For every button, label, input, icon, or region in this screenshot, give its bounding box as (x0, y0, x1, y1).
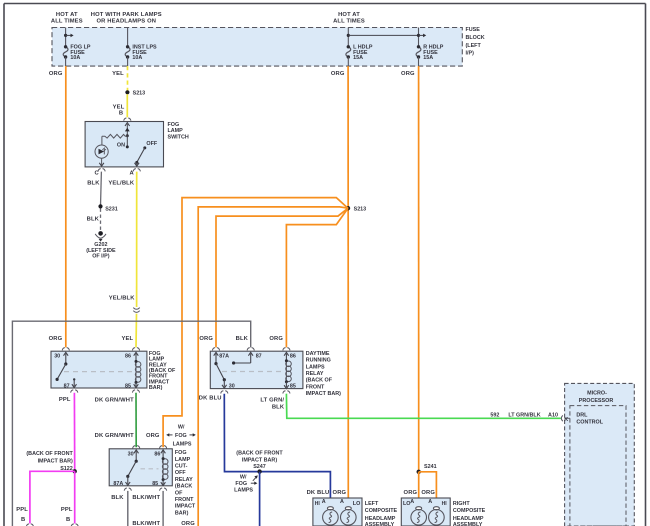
wire label PPL (left) (16, 507, 28, 513)
svg-text:OR HEADLAMPS ON: OR HEADLAMPS ON (97, 19, 157, 25)
label OFF (146, 141, 157, 147)
wire DK GRN/WHT from fog relay 85 to cut-off relay 30 (135, 393, 137, 447)
DRL relay pin 87 lead (232, 352, 253, 364)
wire label BLK/WHT (132, 495, 160, 501)
fog relay pin 86 label (125, 354, 131, 360)
cut-off relay switch contact 30 to 87A (126, 450, 139, 486)
wire label PPL (59, 397, 71, 403)
connector at DRL relay pin 85 (283, 391, 290, 394)
svg-text:FRONT: FRONT (175, 497, 194, 503)
svg-text:86: 86 (125, 354, 131, 360)
left headlamp pin labels HI A A LO (315, 499, 361, 507)
svg-text:C: C (94, 171, 99, 177)
svg-text:15A: 15A (423, 55, 433, 61)
wire label ORG (left headlamp) (333, 490, 347, 496)
svg-text:RELAY: RELAY (175, 477, 193, 483)
arrow right (w/ fog lamps at S247) (251, 482, 258, 485)
connector at switch pin B (124, 118, 131, 121)
connector at DRL relay pin 87A (212, 348, 219, 351)
wire label DK BLU (199, 396, 222, 402)
svg-text:A10: A10 (548, 413, 558, 419)
svg-text:BAR): BAR) (175, 510, 189, 516)
connector at DRL relay pin 86 (283, 348, 290, 351)
svg-text:W/: W/ (178, 425, 185, 431)
connector at switch pin A (133, 169, 140, 172)
label FOG LAMP CUT-OFF RELAY (BACK OF FRONT IMPACT BAR) (175, 450, 196, 516)
fog relay switch contact 30 to 87 (56, 352, 69, 381)
svg-text:ORG: ORG (331, 71, 345, 77)
switch arm OFF position (135, 146, 146, 164)
fog relay pin 87 arrow (72, 378, 77, 387)
arrow right (w/ fog lamps) (190, 433, 196, 436)
fuse FOG LP FUSE 10A (63, 28, 73, 67)
connector at cut-off relay pin 86 (160, 446, 167, 449)
wire label BLK at DRL 87 (236, 336, 249, 342)
label DRL CONTROL (576, 413, 603, 426)
wire ORG branch from S213 to fog lamp cut-off relay pin 86 (163, 198, 348, 448)
fuse block (left I/P) dashed box (52, 28, 462, 67)
label R HDLP FUSE 15A (423, 44, 443, 60)
svg-text:COMPOSITE: COMPOSITE (453, 508, 486, 514)
wire ORG branch from S213 to DRL relay pin 87A (216, 208, 348, 347)
cut-off relay pin 86 label (154, 451, 160, 457)
svg-text:FOG: FOG (235, 481, 247, 487)
svg-text:592: 592 (490, 413, 499, 419)
svg-text:YEL/BLK: YEL/BLK (108, 180, 135, 186)
svg-text:LAMP: LAMP (175, 457, 191, 463)
splice S231 (98, 204, 102, 208)
svg-text:RUNNING: RUNNING (306, 358, 331, 364)
svg-text:SWITCH: SWITCH (168, 134, 189, 140)
svg-text:BLOCK: BLOCK (466, 35, 485, 41)
svg-text:S213: S213 (133, 91, 146, 97)
fog relay pin 30 label (54, 354, 60, 360)
label G202 (LEFT SIDE OF I/P) (86, 242, 116, 260)
svg-text:15A: 15A (353, 55, 363, 61)
svg-text:I/P): I/P) (466, 51, 475, 57)
wire label YEL/BLK (108, 180, 135, 186)
label FUSE BLOCK (LEFT I/P) (466, 27, 485, 57)
svg-text:LT GRN/BLK: LT GRN/BLK (508, 413, 540, 419)
svg-text:A: A (410, 499, 414, 505)
connector at left fog lamp (26, 524, 33, 526)
wire label ORG (l hdlp) (331, 71, 345, 77)
DRL relay pin 30 label (229, 384, 235, 390)
svg-text:LT GRN/: LT GRN/ (260, 398, 284, 404)
svg-text:LAMPS: LAMPS (306, 364, 325, 370)
svg-text:PPL: PPL (61, 507, 73, 513)
wire LT GRN/BLK from DRL 85 to microprocessor (286, 394, 560, 419)
label S213 (354, 207, 367, 213)
wire ORG branch from S213 to DRL relay pin 86 (286, 208, 348, 347)
svg-text:S213: S213 (354, 207, 367, 213)
cut-off relay coil pins 86-85 (161, 450, 168, 486)
svg-text:BLK: BLK (236, 336, 249, 342)
wire ORG from R HDLP fuse down to S241 (418, 66, 420, 470)
wire label ORG (right headlamp LO) (404, 490, 418, 496)
wire label YEL at fog relay 86 (none, above) / ORG at DRL 87A (199, 336, 213, 342)
label MICRO-PROCESSOR (579, 391, 614, 405)
svg-text:LEFT: LEFT (365, 501, 379, 507)
DRL relay pin 86 label (290, 354, 296, 360)
svg-text:A: A (322, 499, 326, 505)
svg-text:85: 85 (125, 383, 131, 389)
label FOG LAMP SWITCH (168, 122, 189, 140)
svg-text:CONTROL: CONTROL (576, 419, 603, 425)
wire label YEL/BLK (lower) (109, 296, 136, 302)
svg-text:FRONT: FRONT (306, 384, 325, 390)
arrow left (w/ fog lamps) (166, 433, 172, 436)
svg-text:BAR): BAR) (149, 385, 163, 391)
svg-text:DK GRN/WHT: DK GRN/WHT (95, 398, 134, 404)
fog relay coil pins 86-85 (134, 352, 141, 387)
wire ORG branch from S213 down to fog lamps feed (198, 207, 348, 526)
svg-text:FUSE: FUSE (466, 27, 481, 33)
svg-text:87A: 87A (219, 354, 229, 360)
svg-text:85: 85 (152, 481, 158, 487)
svg-text:HOT AT: HOT AT (56, 12, 78, 18)
header HOT AT ALL TIMES (left) (51, 12, 83, 25)
wire YEL from S213 to switch pin B (126, 94, 128, 117)
wire label ORG (r hdlp) (401, 71, 415, 77)
svg-text:BLK: BLK (272, 404, 285, 410)
cut-off relay pin 87A label (113, 481, 123, 487)
svg-text:(BACK: (BACK (175, 484, 192, 490)
wire label BLK (87, 180, 100, 186)
svg-text:85: 85 (290, 384, 296, 390)
svg-text:ORG: ORG (49, 71, 63, 77)
wire label LT GRN/BLK (horizontal) (508, 413, 540, 419)
label S213 (133, 91, 146, 97)
wire label YEL (inst lps) (112, 71, 124, 77)
svg-text:IMPACT BAR): IMPACT BAR) (306, 391, 341, 397)
svg-text:IMPACT: IMPACT (175, 504, 196, 510)
svg-text:(LEFT: (LEFT (466, 43, 482, 49)
arrow NE to S247 (253, 475, 258, 480)
connector at fog relay pin 85 (132, 390, 139, 393)
daytime running lamps relay box (210, 351, 303, 388)
svg-text:IMPACT BAR): IMPACT BAR) (38, 459, 73, 465)
svg-text:YEL/BLK: YEL/BLK (109, 296, 136, 302)
label (BACK OF FRONT IMPACT BAR) S122 (26, 451, 73, 472)
connector at fog relay pin 87 (71, 390, 78, 393)
svg-text:A: A (340, 499, 344, 505)
svg-text:COMPOSITE: COMPOSITE (365, 508, 398, 514)
connector at cut-off relay pin 85 (160, 488, 167, 491)
fog lamp cut-off relay box (109, 449, 172, 486)
svg-text:BLK: BLK (87, 217, 100, 223)
label S231 (105, 207, 118, 213)
svg-text:B: B (21, 517, 25, 523)
svg-text:ORG: ORG (421, 490, 435, 496)
svg-text:ORG: ORG (199, 336, 213, 342)
svg-text:LAMP: LAMP (168, 128, 184, 134)
svg-text:(BACK OF: (BACK OF (306, 378, 333, 384)
splice S241 (417, 470, 421, 474)
fuse R HDLP FUSE 15A (416, 28, 426, 67)
fog lamp relay box (51, 351, 147, 388)
label ON (117, 143, 125, 149)
svg-text:(BACK OF FRONT: (BACK OF FRONT (236, 450, 283, 456)
splice S213 (orange) (346, 206, 350, 210)
svg-text:DK GRN/WHT: DK GRN/WHT (95, 433, 134, 439)
circuit number 592 (490, 413, 499, 419)
wire label YEL (121, 336, 133, 342)
connector at microprocessor (arc and K) (561, 415, 570, 421)
label W/ FOG LAMPS (at S247) (234, 475, 253, 494)
wire ORG from S241 to right headlamp LO (418, 472, 420, 507)
wire label BLK (87, 217, 100, 223)
label W/ FOG LAMPS with arrows (173, 425, 192, 448)
fog relay dashed link (64, 371, 133, 373)
svg-text:FOG: FOG (175, 433, 187, 439)
connector at right fog lamp (71, 524, 78, 526)
svg-text:K: K (564, 417, 568, 423)
svg-text:OF I/P): OF I/P) (92, 254, 110, 260)
svg-text:HI: HI (442, 501, 448, 507)
svg-text:30: 30 (54, 354, 60, 360)
wire ORG branch from S241 to right headlamp HI (419, 472, 437, 507)
connector at fog relay pin 30 (62, 348, 69, 351)
wire label ORG (bottom feed) (181, 521, 195, 526)
svg-text:A: A (129, 171, 134, 177)
splice S213 (yellow) (125, 90, 129, 94)
svg-text:ASSEMBLY: ASSEMBLY (365, 522, 395, 526)
svg-text:PPL: PPL (16, 507, 28, 513)
svg-text:HEADLAMP: HEADLAMP (453, 516, 484, 522)
wire PPL main to right fog lamp (74, 471, 76, 523)
wire DK BLU from DRL 30 to S247 to left headlamp HI (224, 394, 330, 507)
wire label ORG at DRL 86 (269, 336, 283, 342)
wire label ORG at fog relay 30 (49, 336, 63, 342)
svg-text:FOG: FOG (175, 450, 187, 456)
svg-text:LAMPS: LAMPS (234, 488, 253, 494)
wire YEL from connector to fog lamp relay pin 86 (135, 314, 138, 348)
label RIGHT COMPOSITE HEADLAMP ASSEMBLY (453, 501, 486, 526)
wire label DK GRN/WHT (lower) (95, 433, 134, 439)
cut-off relay pin 85 label (152, 481, 158, 487)
label L HDLP FUSE 15A (353, 44, 373, 60)
pin label C (94, 171, 99, 177)
svg-text:BLK: BLK (111, 495, 124, 501)
svg-text:YEL: YEL (112, 71, 124, 77)
wire label DK BLU (left headlamp) (307, 490, 330, 496)
label FOG LAMP RELAY (BACK OF FRONT IMPACT BAR) (149, 351, 176, 391)
wire label PPL (right) (61, 507, 73, 513)
svg-text:A: A (428, 499, 432, 505)
svg-text:MICRO-: MICRO- (587, 391, 607, 397)
svg-text:30: 30 (128, 451, 134, 457)
label LEFT COMPOSITE HEADLAMP ASSEMBLY (365, 501, 398, 526)
wire BLK/WHT below cut-off 85 (162, 491, 164, 526)
svg-text:HEADLAMP: HEADLAMP (365, 516, 396, 522)
svg-text:ORG: ORG (181, 521, 195, 526)
connector at switch pin C (98, 169, 105, 172)
svg-text:S247: S247 (253, 464, 266, 470)
svg-text:87A: 87A (113, 481, 123, 487)
svg-text:ON: ON (117, 143, 125, 149)
svg-text:ORG: ORG (401, 71, 415, 77)
label FOG LP FUSE 10A (70, 44, 90, 60)
wire ORG from L HDLP fuse down through S213 to left headlamp (347, 66, 349, 507)
wire BLK below cut-off 87A (127, 491, 129, 526)
svg-text:RIGHT: RIGHT (453, 501, 470, 507)
svg-text:DK BLU: DK BLU (307, 490, 330, 496)
svg-text:LO: LO (353, 501, 361, 507)
ground G202 (95, 231, 106, 242)
switch pin B lead with arrows (125, 123, 130, 138)
svg-text:PROCESSOR: PROCESSOR (579, 398, 614, 404)
svg-text:ORG: ORG (333, 490, 347, 496)
wire label ORG (fog lp) (49, 71, 63, 77)
svg-text:ASSEMBLY: ASSEMBLY (453, 522, 483, 526)
header HOT WITH PARK LAMPS OR HEADLAMPS ON (91, 12, 162, 25)
wire label BLK (111, 495, 124, 501)
svg-text:ALL TIMES: ALL TIMES (51, 19, 83, 25)
right headlamp HI bulb (429, 507, 445, 525)
connector at cut-off relay pin 87A (124, 488, 131, 491)
pin label B (119, 110, 123, 116)
fog relay pin 87 label (64, 383, 70, 389)
pin label B (right) (66, 517, 70, 523)
wire YEL/BLK from switch A down to inline connector (136, 172, 138, 307)
svg-text:30: 30 (229, 384, 235, 390)
svg-text:86: 86 (290, 354, 296, 360)
svg-text:OF: OF (175, 490, 183, 496)
DRL relay switch contact 87A to 30 (214, 352, 227, 388)
svg-text:(BACK OF FRONT: (BACK OF FRONT (26, 451, 73, 457)
wire ORG from FOG LP fuse down to fog lamp relay pin 30 (65, 66, 67, 347)
fuse INST LPS FUSE 10A (125, 28, 130, 67)
svg-text:PPL: PPL (59, 397, 71, 403)
svg-text:87: 87 (64, 383, 70, 389)
svg-text:HOT WITH PARK LAMPS: HOT WITH PARK LAMPS (91, 12, 162, 18)
DRL relay dashed link (222, 371, 282, 373)
svg-text:10A: 10A (70, 55, 80, 61)
fog relay pin 85 label (125, 383, 131, 389)
wire BLK from switch C to S231 (100, 172, 103, 206)
svg-text:OFF: OFF (146, 141, 157, 147)
svg-text:YEL: YEL (121, 336, 133, 342)
svg-text:B: B (66, 517, 70, 523)
svg-text:ORG: ORG (146, 433, 160, 439)
svg-text:ORG: ORG (404, 490, 418, 496)
svg-text:BLK/WHT: BLK/WHT (132, 521, 160, 526)
label DAYTIME RUNNING LAMPS RELAY (BACK OF FRONT IMPACT BAR) (306, 351, 341, 397)
svg-text:10A: 10A (132, 55, 142, 61)
switch indicator lamp (LED) (95, 136, 108, 166)
pin label A (129, 171, 134, 177)
wire label LT GRN/ BLK (260, 398, 284, 411)
cut-off relay dashed link (141, 468, 159, 470)
svg-text:CUT-: CUT- (175, 464, 188, 470)
svg-text:OFF: OFF (175, 470, 186, 476)
svg-text:DRL: DRL (576, 413, 588, 419)
svg-text:RELAY: RELAY (306, 371, 324, 377)
pin label K (564, 417, 568, 423)
svg-text:ORG: ORG (49, 336, 63, 342)
left headlamp HI bulb (323, 507, 339, 525)
wire DK BLU branch from S247 down to fog lamp relay circuit (259, 472, 261, 526)
connector at DRL relay pin 87 (247, 348, 254, 351)
svg-text:B: B (119, 110, 123, 116)
connector at DRL relay pin 30 (221, 391, 228, 394)
fog lamp switch box (85, 122, 163, 167)
resistor inside switch (102, 134, 127, 138)
svg-text:87: 87 (256, 354, 262, 360)
wire PPL from fog relay 87 to S122 (73, 393, 75, 470)
wire label DK GRN/WHT (95, 398, 134, 404)
right headlamp LO bulb (411, 507, 427, 525)
label S241 (424, 464, 437, 470)
wire BLK long run from bottom left to DRL relay pin 87 (12, 321, 250, 526)
wire label YEL (113, 105, 125, 111)
DRL relay pin 87A label (219, 354, 229, 360)
svg-text:DK BLU: DK BLU (199, 396, 222, 402)
left composite headlamp assembly box (313, 498, 362, 526)
svg-text:ALL TIMES: ALL TIMES (333, 19, 365, 25)
label INST LPS FUSE 10A (132, 44, 157, 60)
svg-text:ORG: ORG (269, 336, 283, 342)
DRL relay coil pins 86-85 (284, 352, 291, 388)
connector at fog relay pin 86 (132, 348, 139, 351)
svg-text:HI: HI (315, 501, 321, 507)
svg-text:BLK/WHT: BLK/WHT (132, 495, 160, 501)
splice S247 (257, 469, 261, 473)
svg-text:S241: S241 (424, 464, 437, 470)
connector at cut-off relay pin 30 (133, 446, 140, 449)
DRL relay pin 85 label (290, 384, 296, 390)
ON contact and wiper stem (126, 136, 129, 149)
svg-text:HOT AT: HOT AT (338, 12, 360, 18)
wire BLK dashed from S231 to G202 (100, 209, 102, 232)
svg-text:S231: S231 (105, 207, 118, 213)
right composite headlamp assembly box (401, 498, 450, 526)
wire PPL branch left to left fog lamp (30, 471, 75, 523)
svg-text:IMPACT BAR): IMPACT BAR) (242, 458, 277, 464)
switch pin C arrow (99, 163, 104, 166)
header HOT AT ALL TIMES (right) (333, 12, 365, 25)
wire YEL dashed from INST LPS fuse to S213 (127, 66, 129, 91)
wire label ORG (right headlamp HI) (421, 490, 435, 496)
DRL relay pin 87 label (256, 354, 262, 360)
right headlamp pin labels LO A A HI (403, 499, 447, 507)
pin label B (left) (21, 517, 25, 523)
wire label BLK/WHT (bottom) (132, 521, 160, 526)
DRL control inner dashed box (570, 406, 626, 526)
fuse L HDLP FUSE 15A (346, 28, 419, 67)
svg-text:LAMPS: LAMPS (173, 441, 192, 447)
terminal label A10 (548, 413, 558, 419)
svg-text:BLK: BLK (87, 180, 100, 186)
splice S122 (73, 469, 77, 473)
svg-text:W/: W/ (240, 475, 247, 481)
cut-off relay pin 30 label (128, 451, 134, 457)
switch pin A arrow (135, 162, 140, 166)
inline connector on yellow wire (133, 308, 140, 313)
svg-text:86: 86 (154, 451, 160, 457)
svg-text:DAYTIME: DAYTIME (306, 351, 330, 357)
left headlamp LO bulb (341, 507, 357, 525)
label (BACK OF FRONT IMPACT BAR) S247 (236, 450, 283, 470)
microprocessor outer dashed box (565, 383, 635, 526)
wire label ORG at cut-off 86 (146, 433, 160, 439)
